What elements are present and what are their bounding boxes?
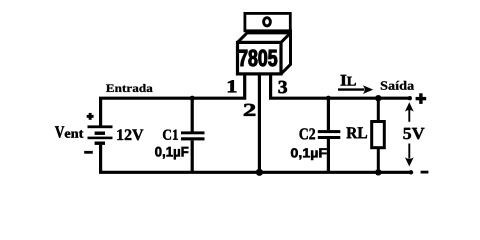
label 12V xyxy=(117,129,143,140)
label pin 1 xyxy=(228,80,236,92)
output minus sign xyxy=(421,171,429,174)
battery plus sign xyxy=(87,113,94,120)
voltage arrow down (5V) xyxy=(405,144,414,167)
voltage arrow up (5V) xyxy=(405,102,414,122)
label pin 3 xyxy=(279,81,287,93)
label Vent xyxy=(55,126,64,137)
label 0,1uF (C1) xyxy=(155,147,188,160)
node: output + terminal xyxy=(408,96,412,100)
label pin 2 xyxy=(244,104,255,116)
label Entrada xyxy=(106,84,153,92)
regulator body front face xyxy=(238,42,282,74)
battery Vent xyxy=(88,125,113,144)
wire: pin2 down lead xyxy=(258,75,261,172)
regulator body 3D top face xyxy=(238,33,291,43)
capacitor C2 xyxy=(318,98,341,172)
node: RL top junction xyxy=(375,95,381,101)
label RL xyxy=(346,127,367,138)
wire: input top rail + battery top lead + pin1 riser xyxy=(101,75,245,126)
output plus sign xyxy=(416,93,427,104)
regulator mounting hole xyxy=(264,18,271,26)
node: C2 top junction xyxy=(326,96,331,101)
node: C1 top junction xyxy=(190,96,195,101)
regulator U1 7805 tab xyxy=(245,13,290,30)
node: pin2 bottom junction xyxy=(256,169,263,176)
label IL xyxy=(341,75,347,86)
label Saida xyxy=(381,81,414,90)
label C1 xyxy=(163,130,178,140)
label 5V xyxy=(403,128,424,139)
node: RL bottom junction xyxy=(375,169,381,175)
capacitor C1 xyxy=(181,98,205,172)
label 7805 xyxy=(239,50,277,67)
node: output - terminal xyxy=(409,170,413,174)
regulator body 3D right face xyxy=(281,33,291,74)
resistor RL xyxy=(372,98,385,172)
battery minus sign xyxy=(84,151,93,154)
wire: bottom rail + battery bottom lead xyxy=(101,145,411,173)
wire: pin3 riser + output top rail xyxy=(271,75,410,98)
current arrow IL xyxy=(338,85,373,94)
label 0,1uF (C2) xyxy=(291,148,327,160)
label C2 xyxy=(300,128,316,139)
